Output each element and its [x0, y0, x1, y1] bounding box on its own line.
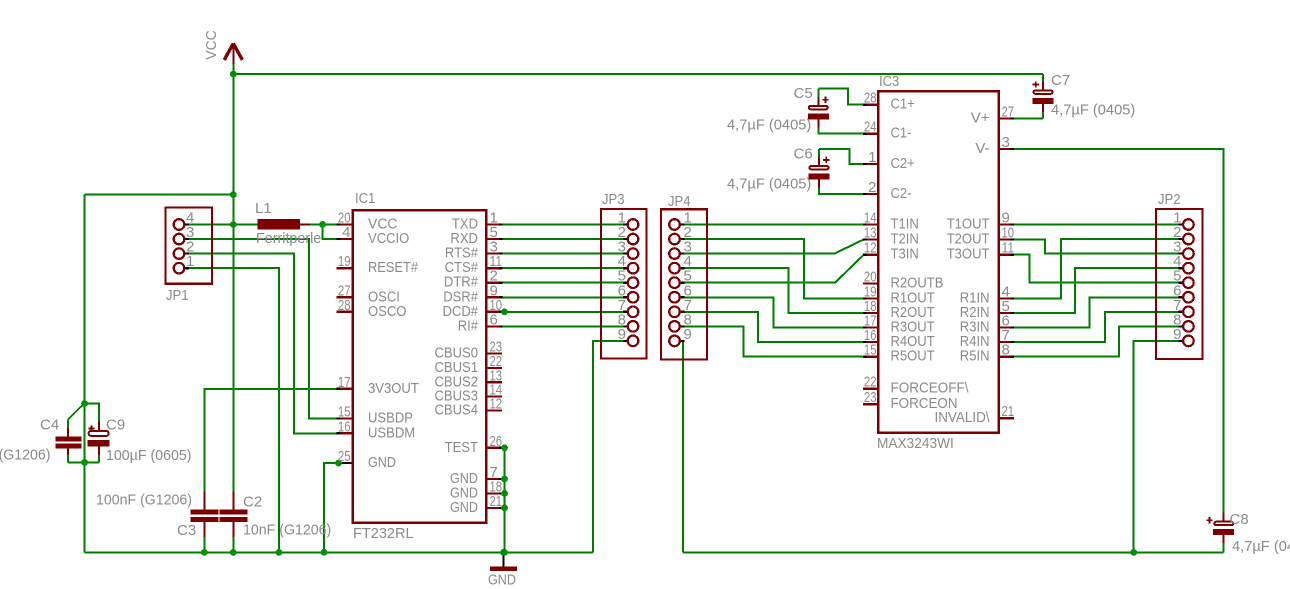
svg-text:INVALID\: INVALID\	[935, 409, 991, 426]
svg-text:4: 4	[342, 224, 350, 241]
svg-text:19: 19	[338, 253, 351, 270]
svg-text:L1: L1	[255, 200, 272, 217]
svg-text:RESET#: RESET#	[368, 259, 419, 276]
svg-text:JP4: JP4	[668, 193, 691, 210]
svg-text:22: 22	[864, 374, 877, 391]
svg-text:VCC: VCC	[203, 30, 220, 60]
svg-text:JP1: JP1	[166, 287, 189, 304]
svg-text:C9: C9	[106, 417, 125, 434]
svg-text:R5OUT: R5OUT	[891, 348, 935, 365]
svg-text:25: 25	[338, 448, 351, 465]
svg-text:16: 16	[338, 418, 351, 435]
svg-text:26: 26	[490, 433, 503, 450]
svg-text:21: 21	[1002, 403, 1015, 420]
svg-text:4,7µF (0405): 4,7µF (0405)	[727, 176, 811, 193]
svg-text:28: 28	[338, 297, 351, 314]
svg-text:2: 2	[868, 179, 876, 196]
svg-text:C2: C2	[243, 494, 262, 511]
svg-text:9: 9	[1173, 326, 1181, 343]
svg-text:12: 12	[864, 240, 877, 257]
svg-text:6: 6	[490, 311, 498, 328]
svg-text:23: 23	[864, 389, 877, 406]
svg-text:IC1: IC1	[355, 190, 375, 207]
svg-text:15: 15	[864, 342, 877, 359]
svg-text:100nF (G1206): 100nF (G1206)	[0, 447, 51, 464]
svg-text:C5: C5	[794, 85, 813, 102]
svg-text:CBUS4: CBUS4	[435, 402, 479, 419]
svg-text:3: 3	[1002, 134, 1010, 151]
svg-text:FT232RL: FT232RL	[353, 525, 414, 542]
svg-text:10nF (G1206): 10nF (G1206)	[243, 522, 331, 539]
svg-text:100µF (0605): 100µF (0605)	[106, 447, 192, 464]
svg-text:MAX3243WI: MAX3243WI	[877, 435, 954, 452]
svg-text:27: 27	[1002, 104, 1015, 121]
svg-text:100nF (G1206): 100nF (G1206)	[96, 492, 192, 509]
svg-text:3V3OUT: 3V3OUT	[368, 380, 419, 397]
svg-text:C1-: C1-	[891, 125, 912, 142]
svg-text:V-: V-	[975, 140, 989, 157]
svg-text:RI#: RI#	[458, 317, 479, 334]
svg-text:17: 17	[338, 374, 351, 391]
svg-text:VCCIO: VCCIO	[368, 230, 409, 247]
svg-text:C4: C4	[40, 417, 59, 434]
svg-text:21: 21	[490, 493, 503, 510]
svg-text:C6: C6	[794, 146, 813, 163]
svg-text:C2+: C2+	[891, 155, 916, 172]
svg-text:12: 12	[490, 396, 503, 413]
svg-text:R5IN: R5IN	[960, 348, 990, 365]
svg-text:JP2: JP2	[1158, 191, 1181, 208]
svg-text:8: 8	[1002, 342, 1010, 359]
svg-text:1: 1	[186, 253, 194, 270]
svg-text:OSCO: OSCO	[368, 303, 406, 320]
svg-text:GND: GND	[450, 499, 478, 516]
svg-text:FORCEOFF\: FORCEOFF\	[891, 380, 970, 397]
svg-text:24: 24	[864, 119, 877, 136]
svg-text:V+: V+	[971, 110, 990, 127]
svg-text:TEST: TEST	[445, 439, 478, 456]
svg-text:GND: GND	[488, 572, 516, 589]
svg-text:C1+: C1+	[891, 96, 916, 113]
svg-text:C7: C7	[1051, 72, 1070, 89]
svg-text:1: 1	[868, 149, 876, 166]
svg-text:9: 9	[618, 326, 626, 343]
svg-text:T3OUT: T3OUT	[947, 246, 990, 263]
svg-text:4,7µF (0405): 4,7µF (0405)	[727, 117, 811, 134]
svg-text:T3IN: T3IN	[891, 246, 919, 263]
svg-text:C2-: C2-	[891, 185, 912, 202]
svg-text:JP3: JP3	[602, 191, 625, 208]
svg-text:IC3: IC3	[879, 73, 899, 90]
svg-text:9: 9	[684, 326, 692, 343]
svg-text:USBDM: USBDM	[368, 424, 415, 441]
svg-text:11: 11	[1002, 240, 1015, 257]
svg-text:28: 28	[864, 90, 877, 107]
svg-text:C3: C3	[177, 522, 196, 539]
svg-text:GND: GND	[368, 454, 396, 471]
svg-text:4,7µF (04: 4,7µF (04	[1232, 538, 1290, 555]
svg-text:Ferritperle: Ferritperle	[256, 230, 321, 247]
svg-text:C8: C8	[1230, 511, 1249, 528]
svg-text:4,7µF (0405): 4,7µF (0405)	[1051, 102, 1135, 119]
